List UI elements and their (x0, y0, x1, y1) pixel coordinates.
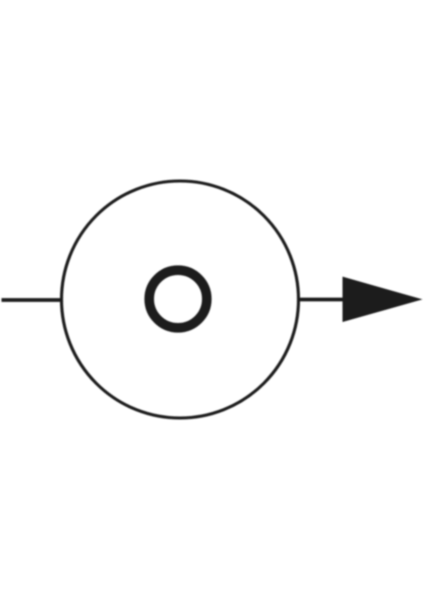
arrowhead (flow direction) (343, 277, 423, 322)
wire left lead (2, 298, 63, 302)
instrument circle body (62, 181, 299, 418)
inner port circle (149, 270, 207, 328)
wire right lead (298, 298, 345, 302)
